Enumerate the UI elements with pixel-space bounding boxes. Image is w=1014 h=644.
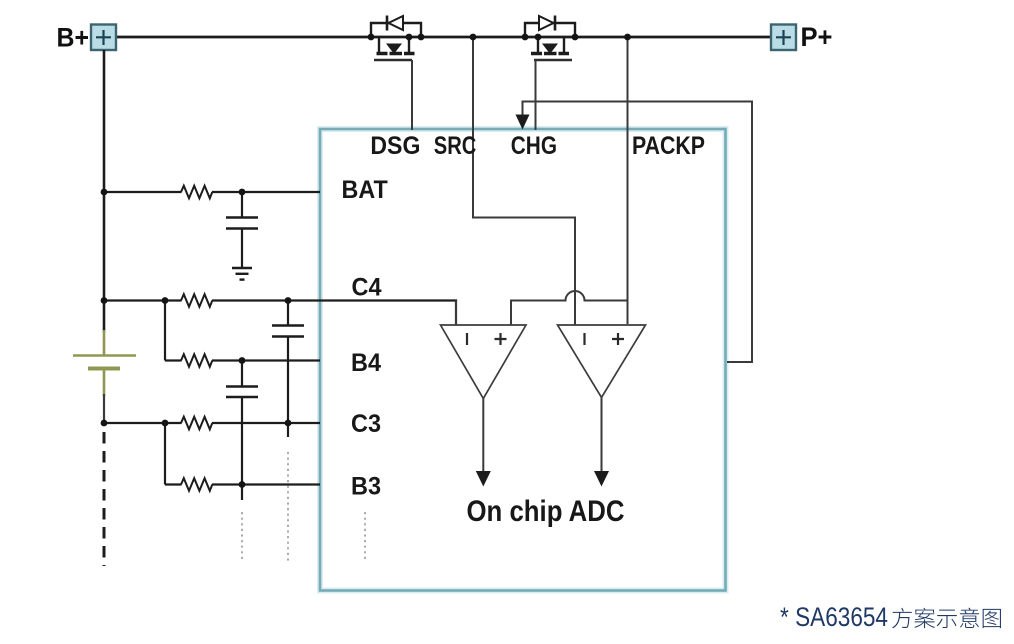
wire dashed battery stack continuation (103, 432, 106, 566)
wire BAT row (104, 191, 320, 193)
arrowhead into CHG pin (516, 115, 530, 130)
capacitor C-BAT (226, 192, 258, 267)
terminal P+ box (771, 25, 796, 51)
wire battery minus to C3 row (103, 394, 105, 423)
dotted continuation inside chip below B3 (364, 512, 366, 560)
svg-text:P+: P+ (801, 22, 833, 52)
wire C4 to B4 drop (164, 301, 166, 361)
transistor Q1 DSG FET body diode (371, 16, 421, 38)
chip U1 (SA63654) outline (320, 129, 726, 591)
transistor Q2 CHG FET (531, 38, 572, 130)
resistor R3 (B4) (181, 354, 212, 367)
wire C4 row to op-amp U1 inverting input (104, 301, 456, 326)
dotted continuation under C4/C3 cap (287, 452, 289, 562)
wire PACKP branch to op-amp U1 + input (hop over SRC wire) (511, 291, 628, 325)
wire PACKP pin down to op-amp U2 + input (627, 37, 629, 324)
transistor Q2 CHG FET body diode (525, 16, 575, 38)
capacitor C-B4C3 between B4 and B3 rows (226, 361, 258, 485)
resistor R4 (C3) (181, 417, 212, 430)
capacitor C-C4B4 between C4 and C3 rows (272, 301, 304, 424)
wire CHG drive loop from chip right edge (523, 102, 753, 363)
resistor R1 (BAT) (181, 186, 212, 199)
svg-text:DSG: DSG (370, 133, 420, 160)
terminal B+ box (91, 25, 116, 51)
resistor R5 (B3) (181, 478, 212, 491)
ground (232, 268, 252, 280)
svg-text:CHG: CHG (511, 133, 557, 160)
wire stub below B3 junction (241, 485, 243, 501)
svg-text:BAT: BAT (342, 177, 388, 204)
svg-text:PACKP: PACKP (632, 133, 705, 160)
wire stub below C3 junction (287, 423, 289, 437)
wire SRC pin to op-amp U2 inverting input (473, 37, 575, 325)
op-amp U2 (558, 325, 646, 487)
caption CJK 方案示意图 (892, 608, 1001, 629)
resistor R2 (C4) (181, 294, 212, 307)
svg-text:B4: B4 (351, 350, 381, 377)
svg-text:On chip ADC: On chip ADC (467, 495, 625, 528)
svg-text:SRC: SRC (434, 133, 477, 160)
wire C3 to B3 drop (164, 423, 166, 485)
dotted continuation under B4/B3 cap (241, 512, 243, 562)
wire B3 row (165, 483, 320, 485)
svg-text:C3: C3 (351, 411, 381, 438)
svg-text:B+: B+ (57, 23, 90, 53)
transistor Q1 DSG FET (374, 38, 415, 130)
wire C3 row (104, 422, 320, 424)
svg-text:* SA63654: * SA63654 (780, 602, 888, 632)
op-amp U1 (441, 301, 527, 487)
wire top rail B+ to P+ (116, 36, 771, 39)
svg-text:B3: B3 (351, 474, 381, 501)
wire B4 row (165, 359, 320, 361)
battery BT1 (73, 330, 136, 396)
wire B+ left vertical down (103, 50, 106, 332)
svg-text:C4: C4 (352, 275, 382, 302)
